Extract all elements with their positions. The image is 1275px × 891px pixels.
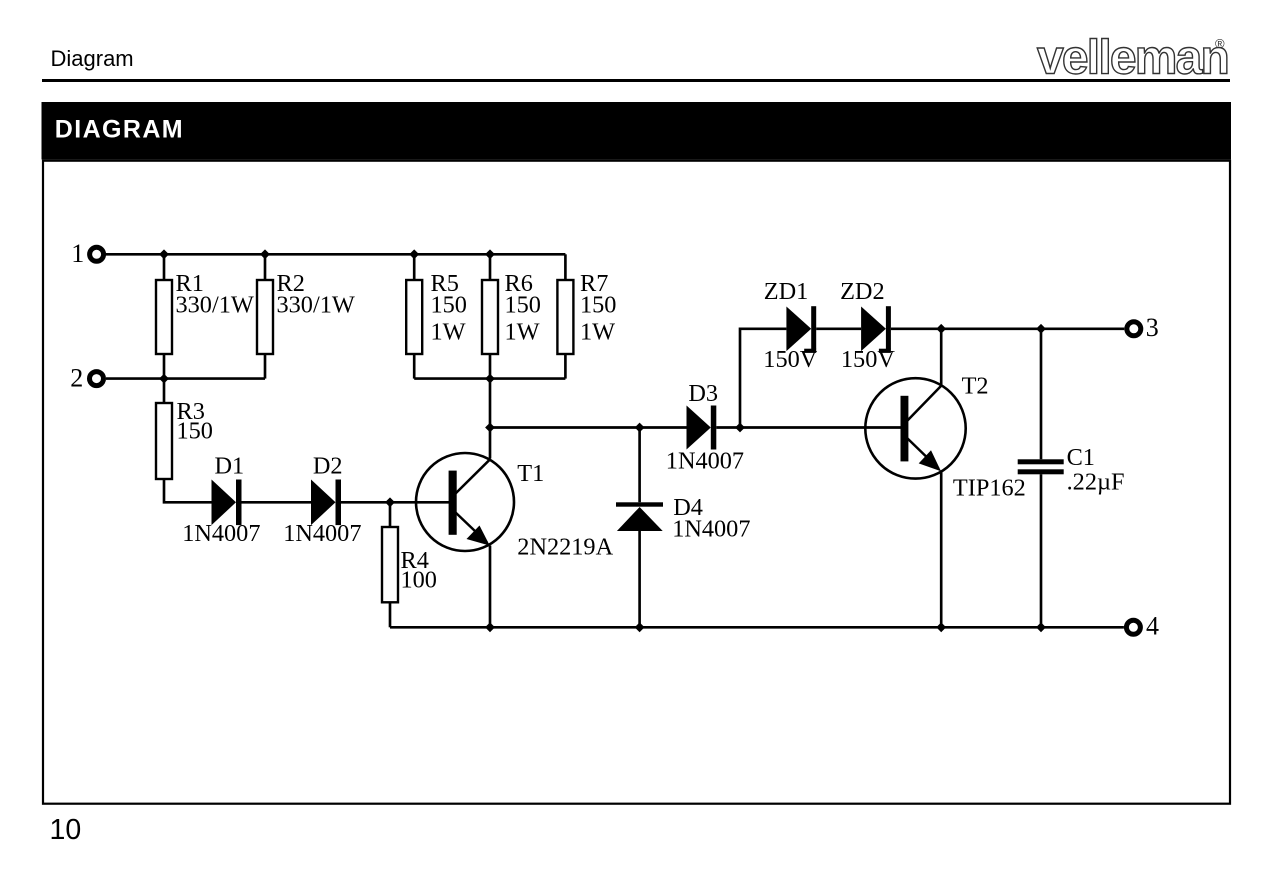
svg-text:1: 1: [71, 239, 84, 268]
wire R4 bottom to bottom rail: [389, 602, 392, 627]
junction T2 emitter bottom: [936, 622, 946, 632]
junction C1 top: [1036, 324, 1046, 334]
wire D2 to T1 base: [341, 501, 449, 504]
wire D4 bottom: [638, 531, 641, 627]
svg-text:velleman: velleman: [1037, 32, 1228, 85]
resistor R3 body: [156, 403, 172, 479]
wire C1 top: [1040, 329, 1043, 460]
svg-text:1W: 1W: [580, 318, 615, 345]
svg-text:D1: D1: [215, 452, 245, 479]
diode D3: [687, 406, 711, 450]
wire R3 bottom to D1: [164, 479, 212, 502]
svg-text:330/1W: 330/1W: [176, 292, 254, 319]
zener ZD2: [861, 307, 886, 352]
diode D2: [311, 480, 336, 526]
junction D4 top: [635, 423, 645, 433]
svg-text:10: 10: [50, 814, 82, 846]
svg-text:330/1W: 330/1W: [277, 292, 355, 319]
junction node2-R1R3: [159, 374, 169, 384]
diode D1: [212, 480, 237, 526]
svg-text:C1: C1: [1067, 444, 1095, 471]
terminal 4: [1126, 620, 1140, 634]
wire rail node2: [106, 377, 265, 380]
wire bottom rail: [390, 626, 1124, 629]
junction node1-R1: [159, 249, 169, 259]
wire T1 emitter vertical: [489, 546, 492, 628]
transistor T1: [416, 453, 514, 551]
resistor R4 body: [382, 527, 398, 602]
transistor T2: [865, 378, 965, 478]
wire R7 bottom: [564, 354, 567, 379]
zener ZD1: [786, 307, 811, 352]
terminal 2: [90, 372, 104, 386]
junction D4 bottom: [635, 622, 645, 632]
capacitor C1: [1018, 459, 1064, 474]
junction node1-R6: [485, 249, 495, 259]
svg-text:.22µF: .22µF: [1067, 469, 1125, 496]
terminal 3: [1127, 322, 1141, 336]
terminal 1: [90, 247, 104, 261]
svg-text:1N4007: 1N4007: [672, 515, 750, 542]
svg-text:ZD2: ZD2: [840, 278, 885, 305]
wire D1 to D2: [242, 501, 312, 504]
wire T2 collector vertical: [940, 329, 943, 386]
svg-text:1W: 1W: [431, 318, 466, 345]
resistor R5 body: [406, 280, 422, 354]
svg-text:150V: 150V: [763, 346, 817, 373]
resistor R1 body: [156, 280, 172, 354]
svg-text:150: 150: [431, 292, 467, 319]
svg-text:TIP162: TIP162: [953, 475, 1026, 502]
resistor R7 body: [557, 280, 573, 354]
wire R6 top drop: [489, 254, 492, 280]
wire R5-R7 bottom bus: [414, 377, 565, 380]
junction node1-R5: [409, 249, 419, 259]
wire R4 top drop: [389, 502, 392, 527]
DIAGRAM title bar: [42, 102, 1232, 160]
junction R6 bottom: [485, 374, 495, 384]
wire R1 bottom: [163, 354, 166, 379]
wire zener branch riser: [740, 329, 786, 428]
wire C1 bottom: [1040, 474, 1043, 627]
svg-text:T2: T2: [962, 372, 989, 399]
svg-text:100: 100: [401, 567, 437, 594]
wire R2 bottom: [264, 354, 267, 379]
junction T1 emitter bottom: [485, 622, 495, 632]
junction R4 top: [385, 497, 395, 507]
svg-text:1N4007: 1N4007: [182, 520, 260, 547]
wire top rail node1: [106, 253, 565, 256]
svg-text:2N2219A: 2N2219A: [517, 534, 613, 561]
svg-text:Diagram: Diagram: [51, 46, 134, 71]
wire R1 top drop: [163, 254, 166, 280]
junction T2 collector node: [936, 324, 946, 334]
svg-text:150: 150: [580, 292, 616, 319]
svg-text:®: ®: [1215, 36, 1225, 51]
svg-text:ZD1: ZD1: [764, 278, 809, 305]
junction zener riser: [735, 423, 745, 433]
svg-text:DIAGRAM: DIAGRAM: [55, 116, 184, 144]
velleman logo: [1037, 32, 1228, 85]
wire D3 to T2 base: [716, 426, 901, 429]
wire D4 top: [638, 428, 641, 503]
svg-text:1W: 1W: [505, 318, 540, 345]
svg-text:150: 150: [177, 417, 213, 444]
junction T1 collector node: [485, 423, 495, 433]
svg-text:1N4007: 1N4007: [283, 520, 361, 547]
junction node1-R2: [260, 249, 270, 259]
header rule: [42, 79, 1230, 82]
wire R5 bottom: [413, 354, 416, 379]
junction C1 bottom: [1036, 622, 1046, 632]
svg-text:T1: T1: [517, 460, 544, 487]
diode D4: [616, 502, 663, 506]
svg-text:D2: D2: [313, 452, 343, 479]
wire ZD2 to node3: [891, 327, 1124, 330]
wire R5 top drop: [413, 254, 416, 280]
wire node between T1 and D3: [490, 426, 687, 429]
wire R7 top drop: [564, 254, 567, 280]
wire ZD1 to ZD2: [816, 327, 861, 330]
wire R3 top: [163, 379, 166, 403]
svg-text:D3: D3: [688, 380, 718, 407]
svg-text:1N4007: 1N4007: [666, 448, 744, 475]
schematic frame box: [43, 161, 1230, 804]
wire R6 bottom: [489, 354, 492, 379]
wire T2 emitter vertical: [940, 471, 943, 627]
svg-text:150V: 150V: [841, 346, 895, 373]
svg-text:2: 2: [70, 363, 83, 392]
wire T1 collector vertical: [489, 379, 492, 459]
wire R2 top drop: [264, 254, 267, 280]
svg-text:3: 3: [1146, 313, 1159, 342]
svg-text:150: 150: [505, 292, 541, 319]
resistor R6 body: [482, 280, 498, 354]
resistor R2 body: [257, 280, 273, 354]
svg-text:4: 4: [1146, 612, 1159, 641]
